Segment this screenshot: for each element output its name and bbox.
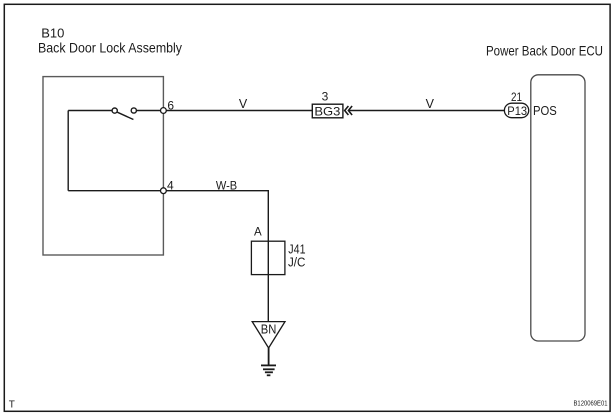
svg-text:A: A (254, 227, 262, 239)
wire: pin 4 to junction J41 and ground (W-B) (166, 191, 268, 322)
svg-text:POS: POS (533, 104, 557, 118)
svg-text:3: 3 (322, 89, 329, 103)
svg-text:B10: B10 (41, 26, 64, 41)
wire: inner loop left vertical (67, 111, 69, 191)
svg-text:T: T (9, 399, 15, 410)
svg-text:W-B: W-B (216, 179, 237, 193)
svg-text:B120069E01: B120069E01 (574, 399, 608, 408)
wire: switch to pin 6 and on to BG3 (136, 110, 312, 112)
svg-text:J/C: J/C (288, 256, 305, 270)
switch S (open contact blade) (112, 108, 136, 120)
svg-text:BN: BN (261, 323, 277, 337)
double chevron (wire direction marker) (345, 106, 352, 115)
wire: inner loop bottom to pin 4 (68, 190, 163, 192)
ground symbol (261, 348, 276, 375)
svg-text:Back Door Lock Assembly: Back Door Lock Assembly (38, 40, 182, 56)
wire: BG3 to P13 (349, 110, 504, 112)
pin 6 terminal (161, 108, 167, 114)
svg-text:6: 6 (167, 98, 174, 112)
svg-text:P13: P13 (507, 104, 527, 118)
component box B10 Back Door Lock Assembly (43, 77, 163, 255)
connector P13 terminal (504, 103, 528, 118)
pin 4 terminal (161, 188, 167, 194)
svg-text:21: 21 (511, 90, 522, 104)
svg-text:BG3: BG3 (314, 105, 340, 119)
ECU box Power Back Door ECU (531, 75, 585, 341)
ground connector BN (triangle) (252, 322, 285, 348)
svg-text:V: V (239, 97, 248, 111)
wire: switch left segment (68, 110, 112, 112)
svg-text:J41: J41 (288, 242, 305, 256)
svg-text:V: V (426, 97, 435, 111)
connector BG3 (312, 104, 343, 118)
junction connector J41 J/C (251, 241, 305, 274)
svg-text:Power Back Door ECU: Power Back Door ECU (486, 43, 603, 59)
